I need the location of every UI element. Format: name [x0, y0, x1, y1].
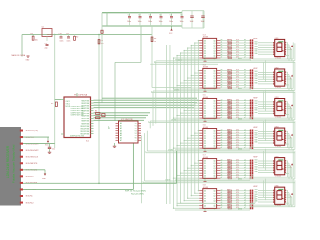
svg-text:100n: 100n	[138, 21, 142, 23]
svg-text:22p: 22p	[45, 48, 48, 50]
row 6 digit wire	[175, 209, 250, 211]
MCU IC1 box	[64, 97, 91, 138]
reset cluster resistors	[96, 113, 101, 115]
svg-text:D0: D0	[204, 160, 206, 162]
row 5 resistors	[228, 160, 232, 161]
svg-text:D6: D6	[204, 175, 206, 177]
svg-text:100n: 100n	[148, 21, 152, 23]
svg-text:a0: a0	[244, 189, 246, 191]
svg-text:o5: o5	[221, 112, 223, 114]
svg-text:OSC1: OSC1	[66, 101, 70, 103]
svg-text:100n: 100n	[180, 21, 184, 23]
ground below row 1 IC	[204, 59, 206, 61]
svg-text:D6: D6	[204, 115, 206, 117]
wire digit riser 4	[146, 131, 148, 151]
svg-text:100n: 100n	[67, 41, 71, 43]
svg-text:CONFIG WDT OFF: CONFIG WDT OFF	[70, 108, 83, 110]
svg-text:R4: R4	[154, 38, 156, 40]
svg-text:SG6: SG6	[255, 53, 258, 55]
row 5 staircase feed wires	[197, 160, 200, 162]
row 3 resistor wires	[220, 100, 250, 102]
svg-text:C10: C10	[59, 33, 62, 35]
display DIS2 right pins	[285, 71, 287, 73]
svg-text:D5: D5	[204, 83, 206, 85]
svg-text:D4: D4	[204, 140, 206, 142]
shift register IC6 row 4	[203, 129, 217, 149]
svg-text:D0: D0	[204, 130, 206, 132]
ground below row 2 IC	[204, 89, 206, 91]
svg-text:a3: a3	[244, 137, 246, 139]
svg-text:o1: o1	[221, 42, 223, 44]
svg-text:Q0: Q0	[213, 40, 215, 42]
svg-text:MOD/FIL2: MOD/FIL2	[26, 176, 34, 178]
LED module block	[0, 127, 21, 206]
display DIS2 supply	[285, 84, 289, 86]
svg-text:a3: a3	[244, 107, 246, 109]
svg-text:HDSP: HDSP	[253, 68, 257, 70]
svg-text:R24: R24	[227, 117, 230, 119]
svg-text:Y4: Y4	[135, 133, 137, 135]
display DIS4 loop wires	[253, 147, 293, 149]
svg-text:a6: a6	[244, 54, 246, 56]
svg-text:a2: a2	[244, 74, 246, 76]
svg-text:o2: o2	[221, 164, 223, 166]
svg-text:o7: o7	[221, 207, 223, 209]
ground below row 6 IC	[204, 209, 206, 211]
svg-text:SG5: SG5	[255, 139, 258, 141]
svg-text:RB13/PGM: RB13/PGM	[80, 133, 89, 135]
svg-text:Q4: Q4	[213, 170, 215, 172]
wire digit rail B gap 1	[154, 62, 295, 64]
svg-text:SG5: SG5	[255, 110, 258, 112]
svg-text:V+: V+	[290, 137, 292, 139]
wire riser x176	[176, 151, 178, 183]
svg-text:a4: a4	[244, 169, 246, 171]
svg-text:Q1: Q1	[42, 27, 44, 29]
svg-text:a2: a2	[244, 104, 246, 106]
svg-text:o6: o6	[221, 84, 223, 86]
svg-text:R5: R5	[51, 103, 53, 105]
svg-text:SG3: SG3	[255, 164, 258, 166]
ground top-left	[27, 55, 30, 57]
row 2 resistors	[228, 70, 232, 71]
row 5 digit wire	[175, 179, 250, 181]
svg-text:D1: D1	[204, 73, 206, 75]
row 2 net flags	[250, 69, 252, 71]
capacitor C1	[129, 13, 131, 17]
svg-text:a3: a3	[244, 47, 246, 49]
svg-text:MADE IN CHINA: MADE IN CHINA	[12, 54, 26, 57]
shift register IC5 row 3	[203, 98, 217, 118]
wire digit rail B gap 5	[143, 182, 295, 184]
row 2 resistor wires	[220, 70, 250, 72]
display DIS5 right stubs	[286, 160, 287, 162]
svg-text:a0: a0	[244, 129, 246, 131]
svg-text:V+: V+	[290, 196, 292, 198]
svg-text:Q0: Q0	[213, 130, 215, 132]
display DIS4 input wires	[258, 130, 275, 132]
svg-text:D0: D0	[204, 70, 206, 72]
capacitor C11	[68, 35, 70, 37]
svg-text:D4: D4	[204, 50, 206, 52]
svg-text:Q1: Q1	[213, 73, 215, 75]
display DIS6 supply	[285, 202, 289, 204]
svg-text:a4: a4	[244, 49, 246, 51]
svg-text:Q5: Q5	[213, 113, 215, 115]
display DIS2 left pins	[273, 72, 275, 74]
component on cap drop	[101, 30, 103, 33]
svg-text:PIC 16F876A: PIC 16F876A	[74, 94, 88, 97]
ground below row 5 IC	[204, 179, 206, 181]
wire module pin7 ground	[23, 169, 45, 171]
svg-text:a0: a0	[244, 159, 246, 161]
svg-text:D1: D1	[204, 43, 206, 45]
svg-text:D2: D2	[204, 196, 206, 198]
svg-text:a2: a2	[244, 134, 246, 136]
display DIS5 right pins	[285, 160, 287, 162]
svg-text:Q2: Q2	[213, 196, 215, 198]
svg-text:10uF: 10uF	[190, 21, 194, 23]
display DIS3 input wires	[258, 101, 275, 103]
display DIS4 left pins	[273, 131, 275, 133]
svg-text:o4: o4	[221, 49, 223, 51]
svg-text:HDSP: HDSP	[253, 156, 257, 158]
svg-text:SG2: SG2	[255, 132, 258, 134]
svg-text:D4: D4	[204, 201, 206, 203]
capacitor C7 polarized	[202, 11, 204, 16]
resistor R2	[74, 35, 76, 37]
svg-text:o0: o0	[221, 99, 223, 101]
row 4 net flags	[250, 130, 252, 132]
wire VDD drop x141	[140, 26, 142, 62]
svg-text:C4: C4	[159, 15, 161, 17]
resistor R5 on left rail	[55, 102, 57, 107]
ground below row 3 IC	[204, 119, 206, 121]
svg-text:DIG3: DIG3	[238, 118, 242, 120]
row 1 digit wire	[175, 59, 250, 61]
svg-text:Y6: Y6	[135, 138, 137, 140]
svg-text:a7: a7	[244, 117, 246, 119]
svg-text:OSC2: OSC2	[66, 103, 70, 105]
svg-text:SG5: SG5	[255, 80, 258, 82]
row 6 staircase feed wires	[197, 190, 200, 192]
wire module pin10	[23, 188, 133, 190]
svg-text:o3: o3	[221, 107, 223, 109]
svg-text:HDSP: HDSP	[253, 97, 257, 99]
display DIS6 loop wires	[253, 204, 293, 206]
svg-text:SG1: SG1	[255, 71, 258, 73]
svg-text:Q2: Q2	[213, 45, 215, 47]
svg-text:D2: D2	[204, 135, 206, 137]
shift register IC7 row 5	[203, 159, 217, 179]
svg-text:R8: R8	[227, 57, 229, 59]
svg-text:LTS546: LTS546	[275, 117, 281, 119]
svg-text:R16: R16	[227, 87, 230, 89]
svg-text:Y3: Y3	[135, 130, 137, 132]
row 2 digit wire	[175, 89, 250, 91]
svg-text:D1: D1	[204, 133, 206, 135]
svg-text:Q4: Q4	[213, 50, 215, 52]
svg-text:Q1: Q1	[213, 103, 215, 105]
svg-text:4MHz: 4MHz	[47, 34, 52, 36]
svg-text:D1: D1	[204, 163, 206, 165]
ground below row 4 IC	[204, 149, 206, 151]
svg-text:D5: D5	[204, 113, 206, 115]
display DIS5 input wires	[258, 160, 275, 162]
svg-text:R48: R48	[227, 207, 230, 209]
svg-text:Q6: Q6	[213, 206, 215, 208]
row 1 resistors	[228, 40, 232, 41]
svg-text:o6: o6	[221, 54, 223, 56]
svg-text:Futaba Vacuum Display Mod: Futaba Vacuum Display Mod	[12, 144, 16, 183]
svg-text:Q3: Q3	[213, 48, 215, 50]
wire digit riser 2	[152, 91, 154, 126]
row 3 digit wire	[175, 119, 250, 121]
svg-text:D6: D6	[204, 85, 206, 87]
svg-text:o0: o0	[221, 39, 223, 41]
svg-text:10k: 10k	[35, 39, 38, 41]
row 3 net flags	[250, 99, 252, 101]
svg-text:a6: a6	[244, 114, 246, 116]
display DIS1 supply	[285, 54, 289, 56]
svg-text:Q2: Q2	[213, 105, 215, 107]
svg-text:100n: 100n	[127, 21, 131, 23]
svg-text:MOD/NC2: MOD/NC2	[26, 202, 34, 204]
svg-text:LDM-2416 RECEIVER: LDM-2416 RECEIVER	[6, 145, 10, 178]
svg-text:o0: o0	[221, 159, 223, 161]
svg-text:Q5: Q5	[213, 173, 215, 175]
svg-text:100n: 100n	[169, 21, 173, 23]
svg-text:SG1: SG1	[255, 189, 258, 191]
wire cap row left drop	[101, 13, 103, 103]
svg-text:HDSP: HDSP	[253, 186, 257, 188]
display DIS4 supply	[285, 143, 289, 145]
display DIS6 left pins	[273, 190, 275, 192]
svg-text:SG3: SG3	[255, 135, 258, 137]
svg-text:SG3: SG3	[255, 76, 258, 78]
display DIS5 loop wires	[253, 176, 293, 178]
svg-text:SG6: SG6	[255, 142, 258, 144]
svg-text:R32: R32	[227, 147, 230, 149]
row 1 resistor wires	[220, 40, 250, 42]
display DIS4 right stubs	[286, 130, 287, 132]
svg-text:a7: a7	[244, 147, 246, 149]
capacitor C5	[171, 13, 173, 17]
svg-text:o4: o4	[221, 79, 223, 81]
row 3 IC left pins	[199, 100, 203, 102]
shift register IC4 row 2	[203, 68, 217, 88]
svg-text:a2: a2	[244, 44, 246, 46]
svg-text:SG5: SG5	[255, 51, 258, 53]
svg-text:o7: o7	[221, 87, 223, 89]
svg-text:o2: o2	[221, 44, 223, 46]
svg-text:Q1: Q1	[213, 163, 215, 165]
svg-text:LTS546: LTS546	[275, 57, 281, 59]
IC2 left pins	[116, 123, 119, 125]
svg-text:SG5: SG5	[255, 169, 258, 171]
svg-text:SG6: SG6	[255, 171, 258, 173]
svg-text:LTS546: LTS546	[275, 176, 281, 178]
row 3 staircase feed wires	[197, 100, 200, 102]
svg-text:SG1: SG1	[255, 160, 258, 162]
row 4 digit wire	[175, 149, 250, 151]
svg-text:o7: o7	[221, 177, 223, 179]
svg-text:Y0: Y0	[135, 123, 137, 125]
svg-text:o5: o5	[221, 52, 223, 54]
svg-text:Q5: Q5	[213, 53, 215, 55]
shift register IC8 row 6	[203, 189, 217, 209]
svg-text:Q1: Q1	[213, 193, 215, 195]
svg-text:D3: D3	[204, 48, 206, 50]
svg-text:o6: o6	[221, 144, 223, 146]
display DIS6 right pins	[285, 190, 287, 192]
svg-text:o6: o6	[221, 174, 223, 176]
svg-text:C5: C5	[170, 15, 172, 17]
svg-text:SG4: SG4	[255, 78, 258, 80]
svg-text:100n: 100n	[159, 21, 163, 23]
svg-text:V+: V+	[290, 108, 292, 110]
row 4 resistors	[228, 130, 232, 131]
svg-text:MOD/DAT/STB: MOD/DAT/STB	[26, 162, 38, 165]
svg-text:D6: D6	[204, 145, 206, 147]
svg-text:a5: a5	[244, 82, 246, 84]
svg-text:SG4: SG4	[255, 107, 258, 109]
svg-text:D2: D2	[204, 75, 206, 77]
svg-text:D2: D2	[204, 45, 206, 47]
svg-text:SG6: SG6	[255, 82, 258, 84]
svg-text:D0: D0	[204, 100, 206, 102]
display DIS2 input wires	[258, 71, 275, 73]
display DIS4 right pins	[285, 130, 287, 132]
svg-text:C3: C3	[149, 15, 151, 17]
svg-text:o0: o0	[221, 129, 223, 131]
wire digit rail A gap 1	[156, 60, 293, 62]
svg-text:a3: a3	[244, 77, 246, 79]
svg-text:a7: a7	[244, 57, 246, 59]
wire digit rail A gap 4	[147, 150, 293, 152]
svg-text:o2: o2	[221, 194, 223, 196]
svg-text:a5: a5	[244, 142, 246, 144]
svg-text:o3: o3	[221, 47, 223, 49]
svg-text:o1: o1	[221, 72, 223, 74]
svg-text:a4: a4	[244, 109, 246, 111]
svg-text:a6: a6	[244, 84, 246, 86]
svg-text:a5: a5	[244, 52, 246, 54]
row 5 IC left pins	[199, 160, 203, 162]
svg-text:DIG1: DIG1	[238, 58, 242, 60]
svg-text:o5: o5	[221, 82, 223, 84]
MCU right pin stubs	[91, 100, 94, 102]
svg-text:a6: a6	[244, 174, 246, 176]
display DIS6 input wires	[258, 190, 275, 192]
row 5 net flags	[250, 160, 252, 162]
row 1 staircase feed wires	[197, 40, 200, 42]
svg-text:NTP 25: Rx1=22.5KHz: NTP 25: Rx1=22.5KHz	[125, 191, 146, 193]
svg-text:4094N: 4094N	[203, 37, 209, 39]
row 1 IC left pins	[199, 40, 203, 42]
svg-text:V+: V+	[290, 167, 292, 169]
svg-text:o5: o5	[221, 142, 223, 144]
svg-text:o6: o6	[221, 204, 223, 206]
svg-text:Q0: Q0	[213, 191, 215, 193]
svg-text:a1: a1	[244, 132, 246, 134]
svg-text:D3: D3	[204, 138, 206, 140]
svg-text:Q3: Q3	[213, 168, 215, 170]
svg-text:a2: a2	[244, 164, 246, 166]
svg-text:D3: D3	[204, 198, 206, 200]
svg-text:MOD/VCC(+5V): MOD/VCC(+5V)	[26, 130, 39, 132]
svg-text:a4: a4	[244, 139, 246, 141]
display DIS1 left pins	[273, 42, 275, 44]
wire digit rail A gap 2	[153, 90, 293, 92]
svg-text:D3: D3	[204, 108, 206, 110]
wire MCU bus lower	[94, 112, 151, 114]
svg-text:SG4: SG4	[255, 137, 258, 139]
svg-text:Q3: Q3	[213, 78, 215, 80]
svg-text:CONFIG WDT OFF: CONFIG WDT OFF	[70, 106, 83, 108]
svg-text:CONFIG WDT OFF: CONFIG WDT OFF	[70, 114, 83, 116]
svg-text:Q4: Q4	[213, 110, 215, 112]
svg-text:a4: a4	[244, 79, 246, 81]
row 4 resistor wires	[220, 130, 250, 132]
row 6 net flags	[250, 190, 252, 192]
wire cap rail left connector	[106, 13, 108, 26]
wire digit rail A gap 5	[145, 180, 294, 182]
svg-text:o5: o5	[221, 172, 223, 174]
svg-text:SG1: SG1	[255, 41, 258, 43]
svg-text:SG2: SG2	[255, 73, 258, 75]
svg-text:a6: a6	[244, 204, 246, 206]
wire extra gap0 rail	[150, 63, 218, 65]
display DIS3 supply	[285, 114, 289, 116]
svg-text:o4: o4	[221, 199, 223, 201]
supply VCC below cap row	[171, 26, 173, 29]
wire main rail top-left	[22, 34, 152, 36]
wire cap row top rail	[102, 12, 182, 14]
display DIS3 left pins	[273, 101, 275, 103]
svg-text:SG2: SG2	[255, 103, 258, 105]
svg-text:a0: a0	[244, 99, 246, 101]
svg-text:DIG4: DIG4	[238, 148, 242, 150]
svg-text:DIG6: DIG6	[238, 208, 242, 210]
svg-text:C6: C6	[180, 15, 182, 17]
wire VDD corner to MCU	[115, 61, 141, 63]
svg-text:V+: V+	[290, 48, 292, 50]
resistor R1	[32, 36, 34, 40]
row 6 resistor wires	[220, 190, 250, 192]
svg-text:Q1: Q1	[213, 43, 215, 45]
svg-text:o3: o3	[221, 77, 223, 79]
wire digit rail B gap 3	[149, 122, 295, 124]
svg-text:SG3: SG3	[255, 105, 258, 107]
display DIS1 right stubs	[286, 42, 287, 44]
svg-text:R6: R6	[95, 111, 97, 113]
svg-text:D6: D6	[204, 55, 206, 57]
svg-text:a1: a1	[244, 72, 246, 74]
svg-text:10uF: 10uF	[201, 21, 205, 23]
shift register IC3 row 1	[203, 38, 217, 58]
svg-text:SG6: SG6	[255, 112, 258, 114]
row 2 IC left pins	[199, 70, 203, 72]
wire segment bus verticals	[165, 45, 167, 204]
display DIS1 right pins	[285, 42, 287, 44]
wire module pin2 VCC	[23, 136, 49, 138]
svg-text:D1: D1	[204, 193, 206, 195]
display DIS6 right stubs	[286, 189, 287, 191]
display DIS3 right pins	[285, 101, 287, 103]
svg-text:Q6: Q6	[213, 175, 215, 177]
svg-text:R40: R40	[227, 177, 230, 179]
